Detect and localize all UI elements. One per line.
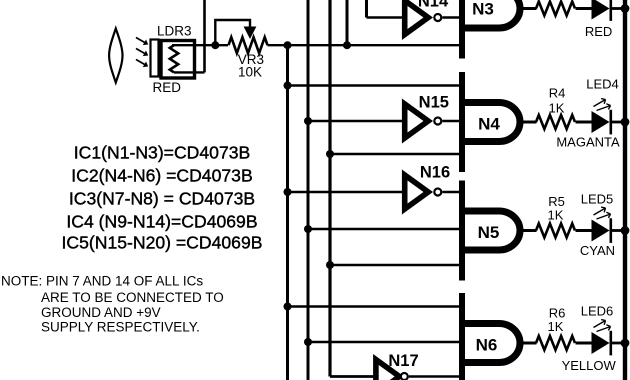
svg-text:1K: 1K: [549, 101, 565, 116]
svg-text:LED4: LED4: [586, 77, 619, 92]
svg-text:NOTE: PIN 7 AND 14 OF ALL ICs: NOTE: PIN 7 AND 14 OF ALL ICs: [1, 274, 203, 289]
svg-text:GROUND AND +9V: GROUND AND +9V: [41, 305, 161, 320]
svg-text:IC4 (N9-N14)=CD4069B: IC4 (N9-N14)=CD4069B: [66, 212, 257, 232]
svg-text:IC1(N1-N3)=CD4073B: IC1(N1-N3)=CD4073B: [74, 143, 251, 163]
svg-text:N3: N3: [472, 0, 494, 19]
svg-text:1K: 1K: [548, 319, 564, 334]
svg-text:N6: N6: [476, 336, 498, 355]
svg-text:N16: N16: [420, 164, 450, 182]
svg-text:N5: N5: [478, 223, 500, 242]
svg-text:ARE TO BE CONNECTED TO: ARE TO BE CONNECTED TO: [41, 290, 224, 305]
svg-text:N15: N15: [419, 94, 449, 112]
svg-text:RED: RED: [585, 24, 612, 39]
svg-text:N4: N4: [478, 115, 500, 134]
svg-text:IC5(N15-N20) =CD4069B: IC5(N15-N20) =CD4069B: [62, 233, 263, 253]
svg-text:R4: R4: [549, 86, 566, 101]
svg-text:N14: N14: [418, 0, 449, 11]
svg-text:MAGANTA: MAGANTA: [556, 135, 620, 150]
svg-text:SUPPLY RESPECTIVELY.: SUPPLY RESPECTIVELY.: [41, 320, 200, 335]
svg-text:IC3(N7-N8) = CD4073B: IC3(N7-N8) = CD4073B: [69, 189, 255, 209]
svg-text:CYAN: CYAN: [580, 243, 615, 258]
svg-text:LED6: LED6: [581, 304, 614, 319]
svg-text:IC2(N4-N6) =CD4073B: IC2(N4-N6) =CD4073B: [71, 166, 252, 186]
svg-text:LDR3: LDR3: [157, 23, 192, 38]
svg-text:10K: 10K: [238, 65, 262, 80]
svg-text:YELLOW: YELLOW: [562, 358, 617, 373]
svg-text:RED: RED: [153, 80, 182, 95]
svg-text:N17: N17: [388, 352, 418, 370]
svg-text:1K: 1K: [548, 208, 564, 223]
svg-text:LED5: LED5: [581, 192, 614, 207]
